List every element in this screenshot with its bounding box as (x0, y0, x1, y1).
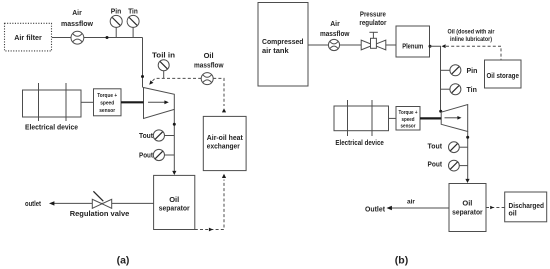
oil storage box (485, 60, 522, 88)
gauge Tin (127, 7, 139, 38)
svg-text:Toil in: Toil in (152, 51, 175, 60)
node junction on outlet line (b) (466, 136, 469, 139)
svg-text:Air: Air (72, 8, 82, 17)
svg-text:Air: Air (330, 19, 340, 28)
svg-text:air tank: air tank (262, 46, 290, 55)
shaft thick wire sensor to compressor (a) (121, 101, 144, 103)
svg-text:Pout: Pout (428, 159, 443, 168)
torque speed sensor box (b) (396, 107, 420, 131)
dashed wire separator to discharged oil (486, 206, 505, 209)
arrow down into oil separator (a) (172, 171, 176, 175)
svg-text:Tin: Tin (128, 7, 138, 16)
gauge Tout (b) (428, 142, 468, 153)
svg-text:speed: speed (402, 117, 415, 123)
svg-text:separator: separator (452, 208, 483, 217)
svg-text:massflow: massflow (194, 61, 224, 70)
electrical device (a) (23, 83, 82, 132)
gauge Tout (a) (139, 130, 174, 141)
svg-text:Tout: Tout (428, 142, 443, 151)
outlet wire (b) (365, 198, 449, 213)
electrical device (b) (334, 100, 389, 147)
air massflow meter (b) (320, 19, 350, 51)
svg-text:Pin: Pin (467, 68, 478, 75)
svg-text:Plenum: Plenum (402, 43, 423, 50)
node junction at compressor inlet (141, 75, 144, 78)
svg-text:regulator: regulator (359, 20, 386, 27)
svg-text:Oil: Oil (169, 195, 179, 204)
svg-text:Outlet: Outlet (365, 204, 385, 213)
svg-text:Tout: Tout (139, 131, 153, 140)
svg-text:speed: speed (100, 100, 114, 106)
svg-text:Compressed: Compressed (262, 37, 304, 46)
svg-text:separator: separator (159, 204, 190, 213)
air filter box (5, 23, 52, 51)
dashed wire meter to heat exchanger top (213, 78, 224, 106)
dashed wire separator to heat exchanger bottom (195, 180, 224, 230)
regulation valve (70, 191, 130, 218)
svg-text:outlet: outlet (25, 201, 42, 208)
wire plenum to compressor (b) (430, 46, 441, 111)
wire filter to air massflow meter (52, 37, 71, 39)
wire device to sensor (b) (389, 117, 397, 119)
svg-text:Electrical device: Electrical device (25, 123, 78, 132)
gauge Pout (b) (428, 159, 468, 171)
pressure regulator valve (359, 12, 386, 50)
svg-text:Electrical device: Electrical device (335, 138, 384, 147)
air massflow meter FM1 (61, 8, 93, 44)
wire air drop to compressor inlet (142, 38, 144, 88)
svg-text:(b): (b) (395, 254, 408, 266)
node junction compressor inlet (b) (439, 110, 442, 113)
svg-text:Air filter: Air filter (14, 33, 42, 42)
svg-text:inline lubricator): inline lubricator) (450, 36, 492, 43)
svg-text:air: air (407, 198, 415, 205)
svg-text:sensor: sensor (99, 108, 116, 114)
oil separator box (a) (154, 175, 195, 229)
compressor (b) (441, 105, 468, 132)
svg-text:Pressure: Pressure (360, 12, 386, 19)
svg-text:sensor: sensor (401, 124, 417, 130)
outlet wire with valve (a) (25, 201, 154, 208)
wire device to sensor (a) (81, 101, 94, 103)
oil separator box (b) (449, 184, 486, 232)
arrow up at heat exchanger top (222, 108, 226, 112)
svg-text:Oil (dosed with air: Oil (dosed with air (448, 29, 496, 36)
svg-text:Tin: Tin (467, 87, 477, 94)
discharged oil box (505, 192, 547, 222)
arrow up into heat exchanger bottom (222, 174, 226, 178)
svg-text:oil: oil (509, 211, 517, 218)
plenum box (396, 26, 430, 57)
arrow down into oil separator (b) (465, 179, 469, 183)
wire meter to corner (84, 37, 143, 39)
oil injection dashed line into compressor (149, 78, 201, 84)
wire meter to regulator (b) (340, 44, 361, 46)
caption (a) (117, 254, 130, 266)
svg-text:exchanger: exchanger (207, 142, 240, 151)
svg-text:(a): (a) (117, 254, 130, 266)
compressed air tank box (258, 3, 308, 87)
wire regulator to plenum (386, 44, 396, 46)
gauge Pout (a) (139, 149, 174, 160)
gauge Pin (110, 7, 122, 38)
svg-text:Oil: Oil (462, 198, 472, 207)
oil massflow meter FM2 (194, 51, 224, 85)
wire tank to meter (b) (308, 44, 329, 46)
wire compressor outlet down to separator (b) (467, 132, 469, 182)
arrow right on bottom dashed wire (209, 228, 213, 232)
wire compressor outlet down to separator (a) (173, 109, 175, 173)
svg-text:Pout: Pout (139, 151, 153, 160)
gauge Pin (b) (441, 65, 478, 76)
svg-text:Torque +: Torque + (399, 110, 418, 116)
shaft thick wire sensor to compressor (b) (420, 117, 441, 119)
node junction on outlet line (173, 123, 176, 126)
air-oil heat exchanger box (203, 116, 246, 170)
svg-text:Regulation valve: Regulation valve (70, 209, 130, 218)
torque speed sensor box (a) (94, 89, 122, 116)
svg-text:massflow: massflow (320, 29, 350, 38)
svg-text:Oil: Oil (204, 51, 214, 60)
svg-text:Torque +: Torque + (97, 93, 117, 99)
node junction at plenum outlet (429, 45, 432, 48)
caption (b) (395, 254, 408, 266)
gauge Toil in (152, 51, 175, 79)
node junction on air line (106, 36, 109, 39)
svg-text:Oil storage: Oil storage (486, 73, 519, 80)
compressor (a) (144, 88, 175, 119)
oil dosing dashed line with arrow (442, 29, 502, 60)
svg-text:Pin: Pin (111, 7, 122, 16)
svg-text:massflow: massflow (61, 19, 93, 28)
gauge Tin (b) (441, 84, 477, 95)
svg-text:Discharged: Discharged (509, 203, 545, 210)
